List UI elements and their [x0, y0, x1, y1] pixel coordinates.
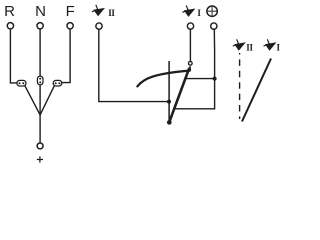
wire from connector X1 to node A [25, 85, 40, 115]
wire mid horizontal (lever to right wire) [186, 78, 215, 80]
terminal 4 [96, 23, 102, 29]
connector X2 (two-pole plug, vertical) [37, 76, 43, 85]
switch travel arc [137, 71, 189, 87]
svg-text:II: II [108, 8, 115, 18]
terminal 5 [187, 23, 193, 29]
output terminal (circle) [37, 143, 43, 149]
connector X1 (two-pole plug, horizontal) [17, 80, 26, 86]
legend lever position I (solid) [242, 59, 271, 122]
flash symbol S2 (remote actuation, position I) [182, 6, 195, 17]
junction dot (stem / left wire) [167, 100, 171, 104]
svg-text:R: R [4, 3, 15, 20]
lever arrowhead [187, 65, 191, 70]
polarity mark + [37, 156, 43, 162]
wire N (straight down to node A) [39, 29, 41, 115]
svg-text:II: II [246, 42, 253, 52]
svg-text:I: I [277, 42, 281, 52]
fixed contact (open circle at lever tip) [188, 61, 192, 65]
wire terminal4 down and right to switch stem [99, 29, 169, 101]
svg-text:F: F [66, 3, 75, 20]
terminal N [37, 23, 43, 29]
flash symbol legend position II [233, 39, 246, 50]
wire F (down from terminal F, corner left) [62, 29, 71, 83]
node A wire down [39, 115, 41, 143]
wire terminal6 down, corner left along bottom to lever [175, 29, 214, 109]
pivot dot [167, 120, 172, 125]
connector X3 (two-pole plug, horizontal) [53, 80, 62, 86]
svg-text:N: N [35, 3, 46, 20]
switch stem (vertical link) [168, 61, 170, 122]
flash symbol S1 (remote actuation, position II) [92, 5, 105, 16]
wire from connector X3 to node A [40, 85, 55, 115]
legend lever position II (dashed) [239, 53, 241, 119]
flash symbol legend position I [264, 39, 277, 50]
switch lever (moving contact) [169, 68, 189, 122]
terminal R [7, 23, 13, 29]
svg-text:I: I [197, 8, 201, 18]
terminal 6 [211, 23, 217, 29]
wire terminal5 down to contact [189, 29, 191, 61]
indicator lamp symbol (circle with cross) [207, 6, 217, 16]
junction dot (right wire / mid horizontal) [213, 77, 217, 81]
terminal F [67, 23, 73, 29]
wire R (down from terminal R, corner right) [10, 29, 17, 83]
